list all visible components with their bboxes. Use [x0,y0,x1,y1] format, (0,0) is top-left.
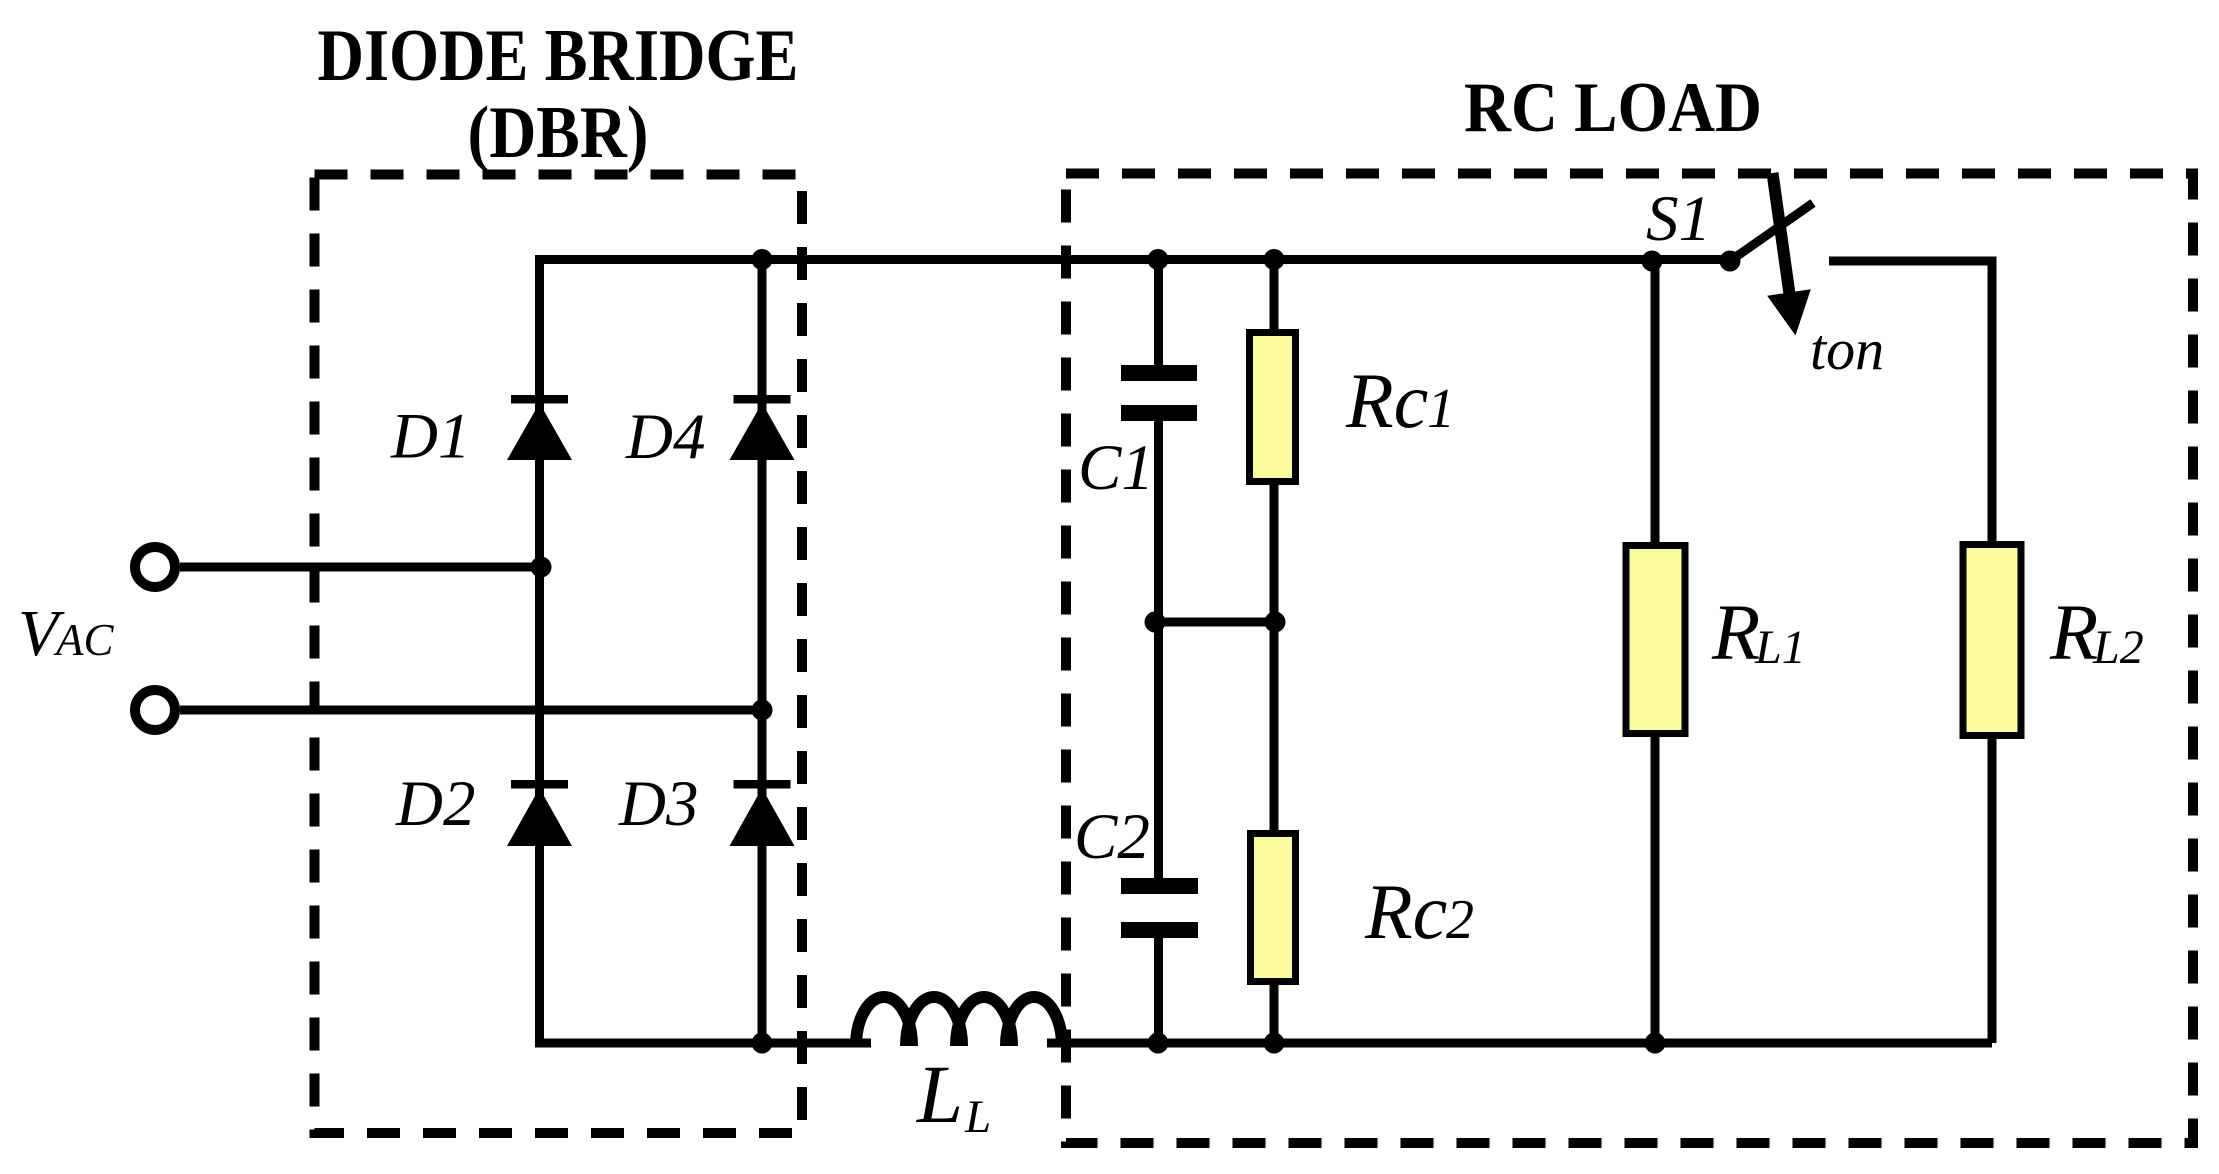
switch actuation arrow (ton) [1767,173,1811,336]
node dot: RL1 top [1642,251,1663,272]
label D3 [618,768,698,840]
label RL1 [1711,590,1806,677]
svg-text:Rc: Rc [1364,868,1447,955]
diode D2 [507,780,572,846]
svg-text:L: L [916,1048,963,1140]
svg-text:1: 1 [1427,378,1455,440]
svg-text:D3: D3 [618,768,698,840]
resistor Rc2 [1251,622,1296,1043]
svg-text:D4: D4 [625,401,705,473]
VAC terminal lower [135,690,175,730]
label ton [1810,317,1884,382]
svg-text:R: R [1711,590,1760,677]
diode D1 [507,395,572,460]
label D2 [395,768,475,840]
wire bottom bus right of inductor [1047,1039,1992,1048]
diode D3 [730,780,795,846]
svg-text:ton: ton [1810,317,1884,382]
label C1 [1078,432,1154,504]
node dot: Rc1 top [1264,249,1285,270]
svg-text:AC: AC [53,615,114,665]
svg-text:S1: S1 [1646,183,1711,255]
node dot: middle left [1145,612,1166,633]
svg-text:L2: L2 [2092,621,2144,674]
inductor LL [856,997,1062,1046]
wire left bridge leg (D1/D2 column) [535,255,544,1043]
wire top bus [535,255,1730,264]
wire bottom bus [535,1039,871,1048]
resistor RL2 [1963,545,2021,1044]
label S1 [1646,183,1711,255]
capacitor C2 [1121,622,1198,1043]
node dot: D4 top [752,249,773,270]
wire right bridge leg (D4/D3 column) [758,255,767,1048]
wire switch fixed contact to RL2 branch [1829,257,1992,542]
label D4 [625,401,705,473]
svg-text:D2: D2 [395,768,475,840]
node dot: middle right [1265,612,1286,633]
resistor RL1 [1626,261,1685,1043]
resistor Rc1 [1250,260,1296,623]
svg-text:L1: L1 [1754,621,1806,674]
label VAC [18,597,114,670]
wire VAC lower to bridge [180,706,766,715]
label LL [916,1048,991,1143]
node dot: D3 bottom [752,1033,773,1054]
wire VAC upper to bridge [180,563,544,572]
node dot: switch pivot [1720,251,1741,272]
svg-text:2: 2 [1446,889,1474,951]
node dot: VAC upper junction [531,557,552,578]
capacitor C1 [1121,260,1197,623]
svg-text:L: L [964,1091,991,1143]
svg-text:RC LOAD: RC LOAD [1464,69,1762,147]
diode D4 [730,395,795,460]
svg-text:C2: C2 [1074,801,1150,873]
label C2 [1074,801,1150,873]
svg-text:R: R [2049,590,2098,677]
switch S1 blade [1730,203,1813,261]
label D1 [390,401,470,473]
DBR dashed box [315,175,803,1134]
title DIODE BRIDGE [318,15,799,174]
svg-text:Rc: Rc [1345,357,1428,444]
svg-text:DIODE BRIDGE: DIODE BRIDGE [318,15,799,97]
title RC LOAD [1464,69,1762,147]
svg-text:C1: C1 [1078,432,1154,504]
label Rc1 [1345,357,1455,444]
label RL2 [2049,590,2144,677]
node dot: VAC lower junction [752,700,773,721]
wire middle junction (C1-C2 to Rc1-Rc2) [1155,618,1275,627]
RC LOAD dashed box [1066,174,2193,1144]
node dot: C2 bottom [1148,1033,1169,1054]
svg-text:(DBR): (DBR) [468,92,649,174]
node dot: Rc2 bottom [1264,1033,1285,1054]
svg-text:D1: D1 [390,401,470,473]
label Rc2 [1364,868,1474,955]
VAC terminal upper [135,547,175,587]
node dot: C1 top [1148,249,1169,270]
node dot: RL1 bottom [1645,1033,1666,1054]
